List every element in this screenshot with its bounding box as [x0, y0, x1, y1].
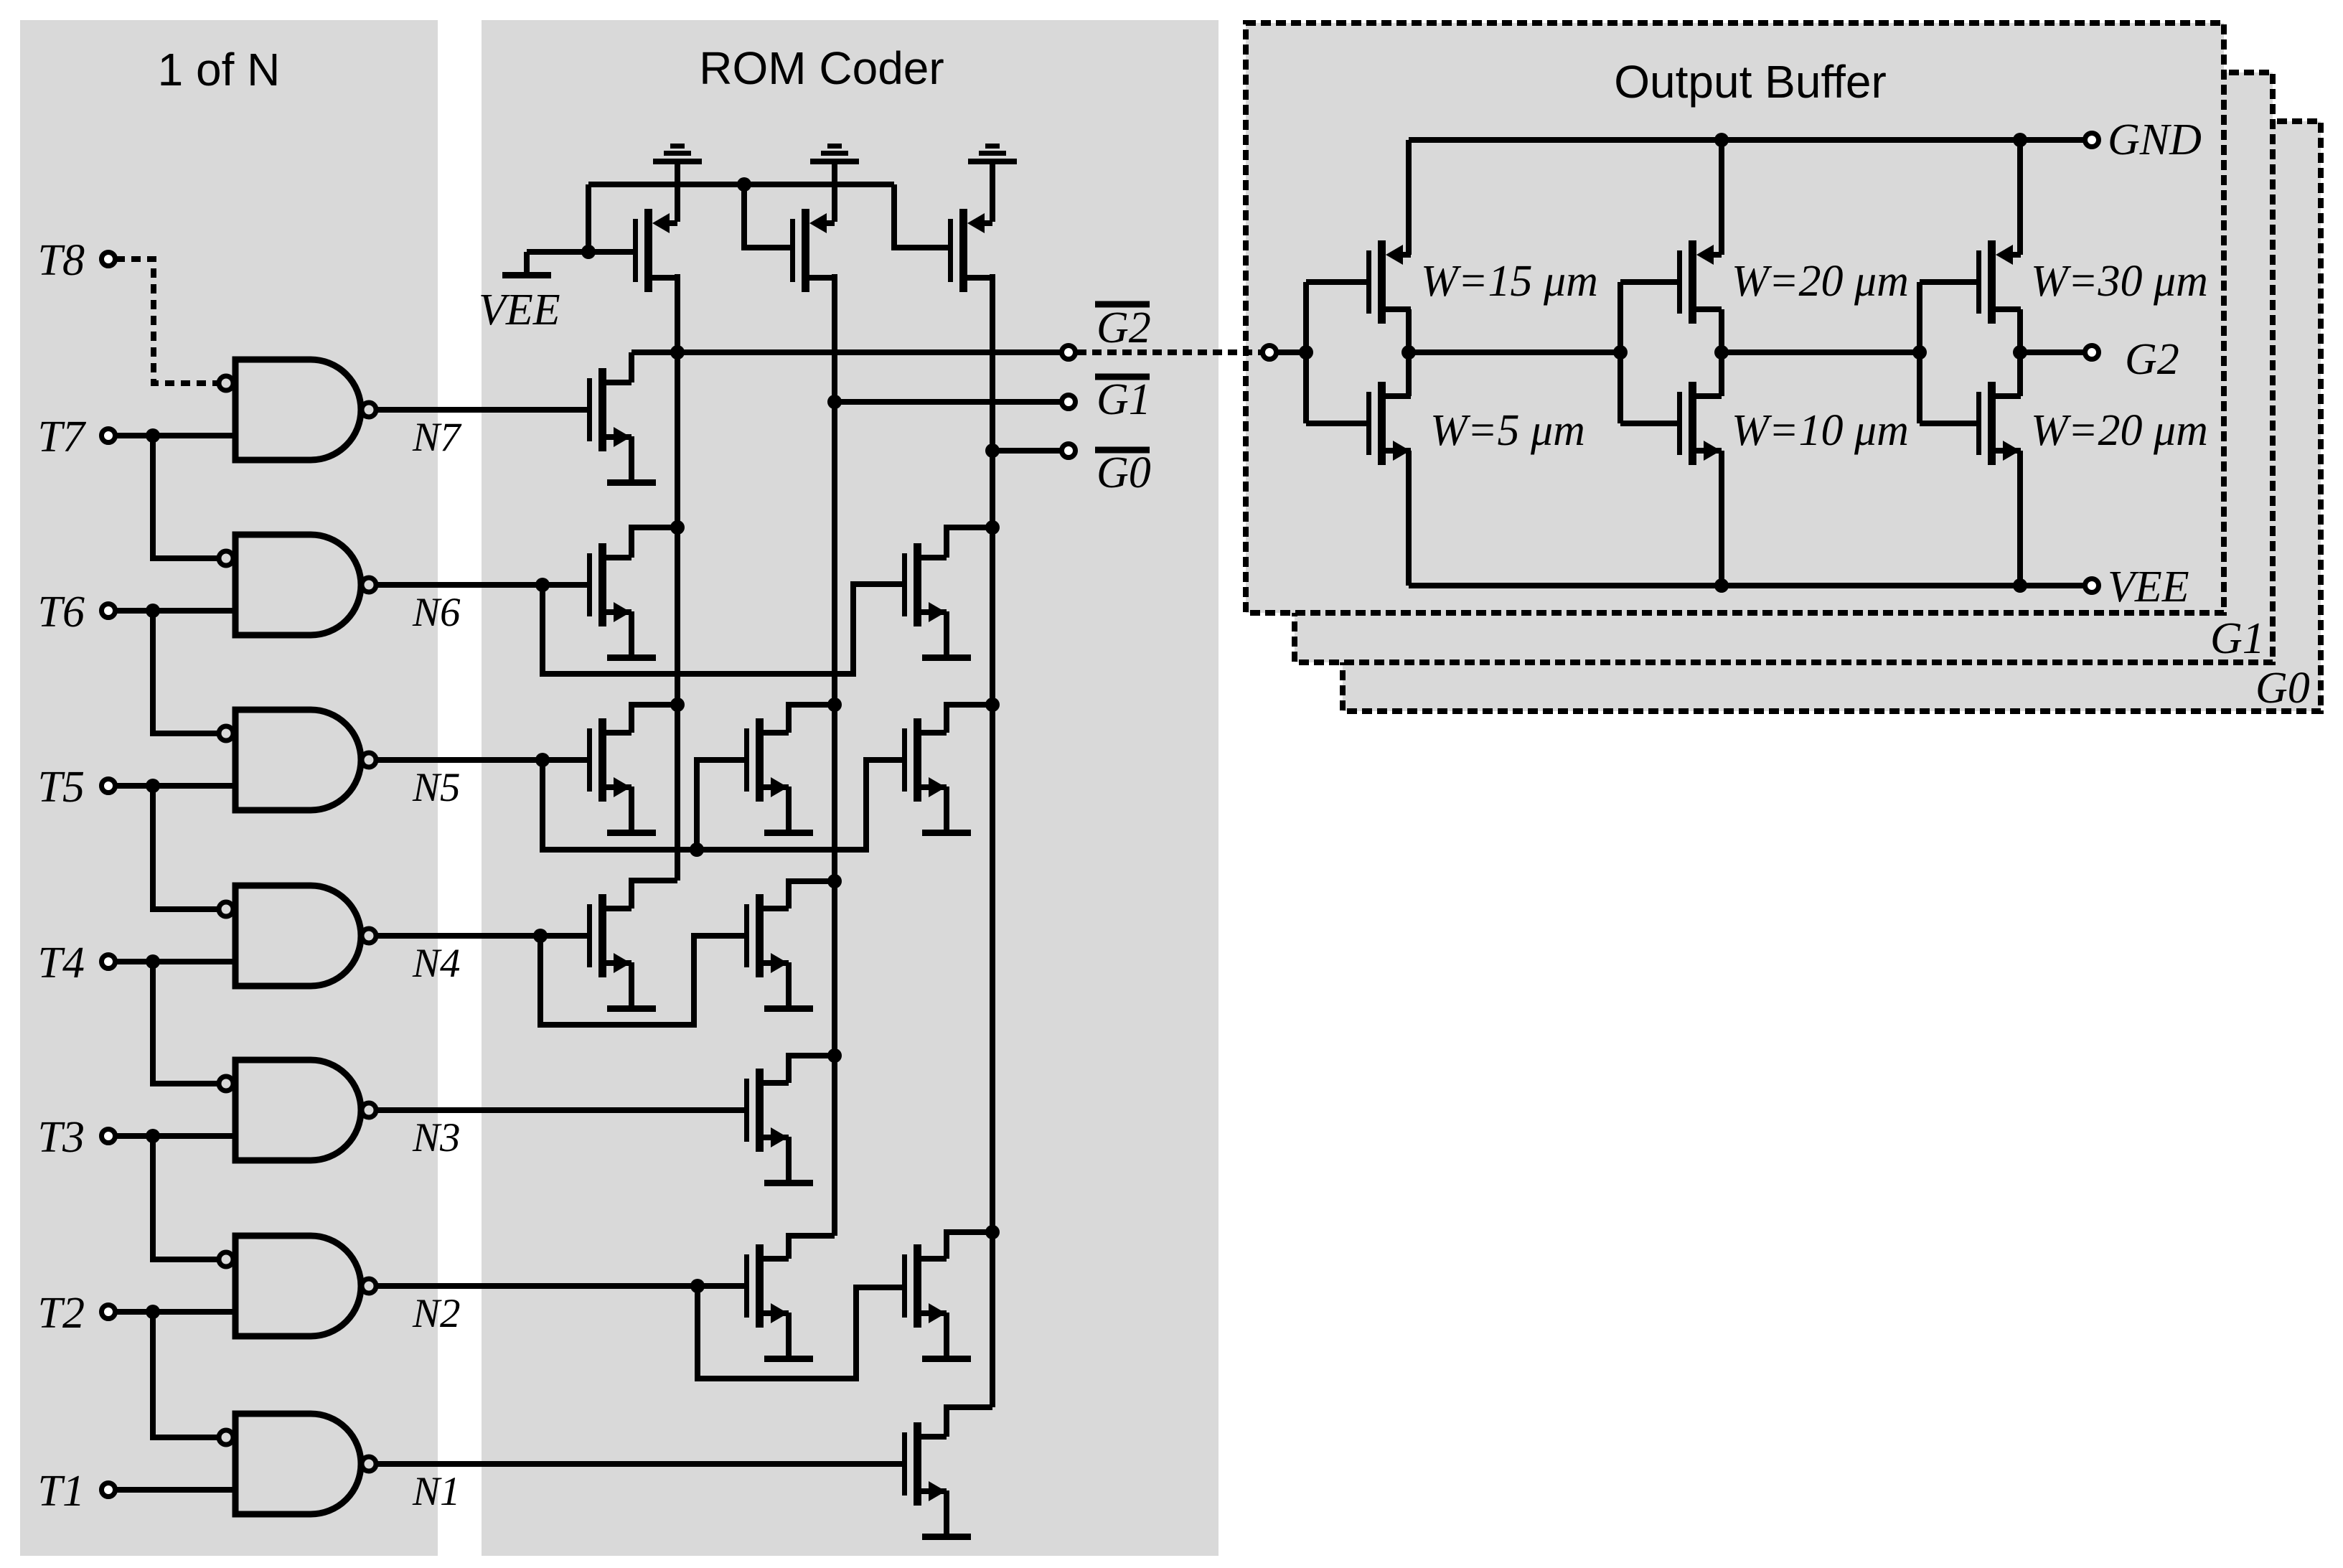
- NAND4 output bubble: [362, 929, 376, 943]
- wire bitline BL3 (G0bar column): [990, 274, 995, 1407]
- stage 1 gate tie: [1303, 282, 1309, 423]
- VEE tap of Q61 (row N6, col G2): [607, 611, 656, 661]
- wire Q51 drain to BL1: [631, 705, 677, 733]
- junction Q63/BL3: [985, 520, 1000, 535]
- junction Q51/BL1: [670, 698, 685, 712]
- terminal T2: [102, 1305, 116, 1319]
- junction tap at T7: [146, 428, 160, 443]
- NAND gate 4 (output N4): [235, 886, 361, 986]
- junction tap at T4: [146, 954, 160, 969]
- wire bitline BL1 (G2bar column): [675, 274, 680, 881]
- svg-text:GND: GND: [2108, 116, 2202, 164]
- panel: 1 of N block background: [20, 20, 438, 1556]
- svg-text:N6: N6: [412, 590, 461, 635]
- junction N5 wordline split: [535, 753, 550, 767]
- NAND gate 7 (output N7): [235, 360, 361, 460]
- wire T1 to NAND1 bottom input: [116, 1487, 235, 1493]
- wire Q71 drain riser: [629, 352, 634, 382]
- junction GND/stage2: [1714, 133, 1729, 147]
- wire Q22 drain to BL3: [947, 1232, 992, 1259]
- svg-text:VEE: VEE: [2108, 563, 2189, 611]
- svg-text:N5: N5: [412, 765, 461, 810]
- wire N1 wordline: [377, 1461, 902, 1467]
- NAND gate 1 (output N1): [235, 1414, 361, 1514]
- wire stage 1 lower gate lead: [1306, 421, 1366, 426]
- junction Q61/BL1: [670, 520, 685, 535]
- wire N2 jog to Q22 gate: [698, 1286, 902, 1379]
- svg-text:T5: T5: [38, 763, 85, 812]
- svg-text:W=20 μm: W=20 μm: [1732, 257, 1909, 306]
- transistor Q31 (row N3, col G1): [744, 1069, 789, 1152]
- wire stage 3 upper gate lead: [1920, 279, 1976, 285]
- svg-text:N4: N4: [412, 941, 461, 986]
- terminal VEE (buffer): [2085, 579, 2099, 593]
- junction Q42/BL2: [827, 874, 842, 888]
- svg-text:G1: G1: [1097, 375, 1151, 424]
- label G2bar: [1095, 301, 1150, 308]
- NAND5 output bubble: [362, 753, 376, 767]
- svg-text:G0: G0: [2255, 664, 2310, 713]
- terminal GND: [2085, 133, 2099, 147]
- wire stage 3 lower gate lead: [1920, 421, 1976, 426]
- terminal G2: [2085, 346, 2099, 360]
- wire tap T4 down to NAND3 top input: [153, 962, 217, 1084]
- svg-text:N7: N7: [412, 415, 462, 460]
- junction stage2 input: [1613, 345, 1628, 360]
- terminal T8: [102, 253, 116, 266]
- load transistor L1: [633, 209, 677, 292]
- VEE tap of Q31 (row N3, col G1): [764, 1137, 813, 1186]
- wire VEE rail: [1409, 583, 2083, 588]
- wire T3 to NAND3 bottom input: [116, 1133, 235, 1139]
- VEE tap of Q52 (row N5, col G1): [764, 787, 813, 836]
- label G1bar: [1095, 374, 1150, 380]
- panel: ROM Coder block background: [482, 20, 1219, 1556]
- wire stage3 out to G2 terminal: [2020, 349, 2083, 355]
- wire Q42 drain to BL2: [789, 881, 835, 909]
- VEE tap of Q21 (row N2, col G1): [764, 1313, 813, 1362]
- load transistor L3: [948, 209, 992, 292]
- junction VEE/stage3: [2013, 578, 2027, 593]
- output buffer sheet G2 (front): [1246, 23, 2224, 613]
- wire N7 wordline: [377, 407, 587, 413]
- wire Q52 drain to BL2: [789, 705, 835, 733]
- svg-text:1 of N: 1 of N: [158, 44, 281, 95]
- junction Q53/BL3: [985, 698, 1000, 712]
- wire stage 2 upper source to output: [1719, 309, 1724, 352]
- wire load3 gate jog: [894, 184, 953, 248]
- wire bitline BL2 (G1bar column): [832, 274, 837, 1236]
- wire stage 2 lower source to VEE rail: [1719, 451, 1724, 586]
- VEE tap of Q11 (row N1, col G0): [922, 1490, 971, 1540]
- wire T2 to NAND2 bottom input: [116, 1309, 235, 1315]
- svg-text:W=20 μm: W=20 μm: [2031, 406, 2208, 455]
- junction bias/VEE: [581, 245, 596, 259]
- transistor stage 3 lower (W=20 μm): [1976, 382, 2021, 465]
- svg-text:W=15 μm: W=15 μm: [1421, 257, 1598, 306]
- wire bias riser: [586, 184, 591, 252]
- transistor Q51 (row N5, col G2): [587, 718, 631, 802]
- wire Q21 drain to BL2 end: [789, 1236, 835, 1259]
- wire stage 3 upper drain to GND rail: [2017, 140, 2023, 255]
- svg-text:ROM Coder: ROM Coder: [699, 42, 944, 94]
- junction stage 2 output node: [1714, 345, 1729, 360]
- svg-text:T4: T4: [38, 939, 85, 987]
- ground symbol 1: [653, 144, 702, 222]
- wire stage 3 upper source to output: [2020, 309, 2021, 352]
- wire stage 2 lower drain to output: [1719, 352, 1724, 396]
- transistor Q42 (row N4, col G1): [744, 894, 789, 977]
- VEE tap of Q71 (row N7, col G2): [607, 436, 656, 486]
- stage 2 gate tie: [1617, 282, 1623, 423]
- junction N6 wordline split: [535, 578, 550, 592]
- transistor Q21 (row N2, col G1): [744, 1244, 789, 1328]
- svg-text:T3: T3: [38, 1113, 85, 1162]
- junction tap at T2: [146, 1305, 160, 1319]
- junction stage 3 output node: [2013, 345, 2027, 360]
- junction Q52/BL2: [827, 698, 842, 712]
- label G0bar: [1095, 447, 1150, 454]
- transistor Q71 (row N7, col G2): [587, 368, 631, 451]
- svg-text:G2: G2: [1097, 304, 1151, 352]
- wire Q11 drain to BL3 end: [947, 1407, 992, 1437]
- junction tap at T5: [146, 779, 160, 793]
- wire Q53 drain to BL3: [947, 705, 992, 733]
- wire stage 1 lower source to VEE rail: [1406, 451, 1412, 586]
- junction N2 wordline split: [690, 1279, 705, 1293]
- junction G1bar/BL2: [827, 395, 842, 409]
- wire N4 wordline: [377, 933, 587, 939]
- ground symbol 2: [810, 144, 859, 222]
- svg-text:T8: T8: [38, 236, 85, 285]
- VEE tap of Q53 (row N5, col G0): [922, 787, 971, 836]
- NAND gate 2 (output N2): [235, 1236, 361, 1336]
- ground symbol 3: [968, 144, 1017, 222]
- svg-text:T6: T6: [38, 588, 85, 637]
- wire stage 2 upper drain to GND rail: [1719, 140, 1724, 255]
- svg-text:G2: G2: [2125, 335, 2179, 384]
- VEE tap of Q42 (row N4, col G1): [764, 962, 813, 1012]
- transistor Q61 (row N6, col G2): [587, 543, 631, 626]
- wire Q52 gate riser: [697, 760, 744, 850]
- dashed wire G2bar to output buffer input: [1077, 349, 1261, 355]
- wire G1bar output line: [835, 399, 1060, 405]
- terminal G1bar: [1062, 395, 1076, 409]
- junction N4 wordline split: [533, 929, 548, 943]
- NAND6 top input bubble: [219, 551, 233, 565]
- wire stage 1 upper drain to GND rail: [1406, 140, 1412, 255]
- transistor Q52 (row N5, col G1): [744, 718, 789, 802]
- wire T4 to NAND4 bottom input: [116, 959, 235, 964]
- output buffer sheet G1: [1295, 72, 2273, 662]
- wire load2 gate jog: [744, 184, 795, 248]
- NAND2 output bubble: [362, 1279, 376, 1293]
- NAND3 top input bubble: [219, 1076, 233, 1091]
- junction G2bar/BL1: [670, 345, 685, 360]
- junction Q22/BL3: [985, 1225, 1000, 1239]
- load transistor L2: [790, 209, 835, 292]
- NAND gate 5 (output N5): [235, 710, 361, 810]
- NAND2 top input bubble: [219, 1252, 233, 1267]
- transistor stage 2 upper (W=20 μm): [1677, 240, 1722, 324]
- NAND gate 3 (output N3): [235, 1060, 361, 1160]
- wire G2bar output line: [631, 349, 1060, 355]
- svg-text:G0: G0: [1097, 449, 1151, 497]
- transistor stage 1 lower (W=5 μm): [1366, 382, 1411, 465]
- NAND1 top input bubble: [219, 1430, 233, 1445]
- junction VEE/stage2: [1714, 578, 1729, 593]
- terminal buffer input: [1263, 346, 1277, 360]
- terminal T5: [102, 779, 116, 793]
- junction GND/stage3: [2013, 133, 2027, 147]
- junction tap at T3: [146, 1129, 160, 1143]
- wire tap T2 down to NAND1 top input: [153, 1312, 217, 1437]
- NAND5 top input bubble: [219, 726, 233, 741]
- wire G0bar output line: [992, 448, 1060, 454]
- transistor stage 3 upper (W=30 μm): [1976, 240, 2021, 324]
- wire Q63 drain to BL3: [947, 527, 992, 558]
- wire N3 wordline: [377, 1107, 744, 1113]
- NAND7 output bubble: [362, 403, 376, 417]
- transistor Q41 (row N4, col G2): [587, 894, 631, 977]
- wire input stub: [1278, 349, 1306, 355]
- VEE tap of Q22 (row N2, col G0): [922, 1313, 971, 1362]
- wire tap T5 down to NAND4 top input: [153, 786, 217, 909]
- svg-text:N3: N3: [412, 1115, 461, 1160]
- junction stage3 input: [1912, 345, 1927, 360]
- transistor stage 1 upper (W=15 μm): [1366, 240, 1411, 324]
- VEE tap of Q41 (row N4, col G2): [607, 962, 656, 1012]
- svg-text:W=10 μm: W=10 μm: [1732, 406, 1909, 455]
- junction bias to load 2: [737, 177, 751, 192]
- svg-text:N2: N2: [412, 1291, 461, 1336]
- dashed wire T8 to NAND7 top input: [116, 259, 217, 383]
- wire stage 2 lower gate lead: [1620, 421, 1677, 426]
- terminal T7: [102, 429, 116, 443]
- wire T7 to NAND7 bottom input: [116, 433, 235, 438]
- wire gate-bias line: [588, 182, 894, 187]
- junction input/stage1 gates: [1299, 345, 1313, 360]
- svg-text:W=5 μm: W=5 μm: [1430, 406, 1585, 455]
- svg-text:G1: G1: [2210, 614, 2265, 663]
- terminal T4: [102, 955, 116, 969]
- terminal G2bar: [1062, 346, 1076, 360]
- svg-text:T7: T7: [38, 413, 87, 461]
- wire N6 wordline: [377, 582, 587, 588]
- wire Q31 drain to BL2: [789, 1056, 835, 1083]
- wire load1 gate lead: [588, 249, 633, 255]
- junction Q31/BL2: [827, 1048, 842, 1063]
- wire N6 jog to Q63 gate: [543, 584, 902, 674]
- wire stage 1 upper gate lead: [1306, 279, 1366, 285]
- NAND3 output bubble: [362, 1103, 376, 1117]
- svg-text:Output Buffer: Output Buffer: [1614, 56, 1887, 108]
- transistor Q22 (row N2, col G0): [902, 1244, 947, 1328]
- svg-text:T1: T1: [38, 1467, 85, 1516]
- transistor stage 2 lower (W=10 μm): [1677, 382, 1722, 465]
- svg-text:VEE: VEE: [479, 286, 560, 334]
- wire stage2 out to stage3 in: [1722, 349, 1920, 355]
- wire tap T3 down to NAND2 top input: [153, 1136, 217, 1259]
- svg-text:T2: T2: [38, 1289, 85, 1338]
- NAND7 top input bubble: [219, 376, 233, 390]
- svg-text:W=30 μm: W=30 μm: [2031, 257, 2208, 306]
- NAND4 top input bubble: [219, 902, 233, 916]
- transistor Q11 (row N1, col G0): [902, 1422, 947, 1506]
- wire stage 2 upper gate lead: [1620, 279, 1677, 285]
- VEE tap of Q63 (row N6, col G0): [922, 611, 971, 661]
- wire T6 to NAND6 bottom input: [116, 608, 235, 614]
- wire N2 wordline: [377, 1283, 744, 1289]
- NAND6 output bubble: [362, 578, 376, 592]
- junction stage 1 output node: [1401, 345, 1416, 360]
- svg-text:N1: N1: [412, 1469, 461, 1514]
- wire stage 3 lower source to VEE rail: [2017, 451, 2023, 586]
- junction N5 jog to Q52 riser: [690, 842, 704, 857]
- wire Q41 drain to BL1 end: [631, 881, 677, 909]
- wire GND rail: [1409, 137, 2083, 143]
- transistor Q63 (row N6, col G0): [902, 543, 947, 626]
- VEE tap of Q51 (row N5, col G2): [607, 787, 656, 836]
- wire stage 1 upper source to output: [1409, 309, 1411, 352]
- terminal T3: [102, 1130, 116, 1143]
- output buffer sheet G0: [1343, 121, 2321, 711]
- wire N5 wordline: [377, 757, 587, 763]
- wire Q61 drain to BL1: [631, 527, 677, 558]
- junction G0bar/BL3: [985, 443, 1000, 458]
- NAND gate 6 (output N6): [235, 535, 361, 635]
- wire T5 to NAND5 bottom input: [116, 783, 235, 789]
- terminal G0bar: [1062, 444, 1076, 458]
- wire stage1 out to stage2 in: [1409, 349, 1620, 355]
- VEE supply stub: [502, 252, 588, 278]
- junction tap at T6: [146, 604, 160, 618]
- wire stage 3 lower drain to output: [2020, 352, 2021, 396]
- transistor Q53 (row N5, col G0): [902, 718, 947, 802]
- wire N4 jog to Q42 gate: [540, 936, 744, 1025]
- terminal T6: [102, 604, 116, 618]
- wire stage 1 lower drain to output: [1409, 352, 1411, 396]
- wire N5 jog to Q53 gate: [543, 760, 902, 850]
- wire tap T6 down to NAND5 top input: [153, 611, 217, 733]
- terminal T1: [102, 1483, 116, 1497]
- stage 3 gate tie: [1917, 282, 1922, 423]
- NAND1 output bubble: [362, 1457, 376, 1471]
- wire tap T7 down to NAND6 top input: [153, 436, 217, 558]
